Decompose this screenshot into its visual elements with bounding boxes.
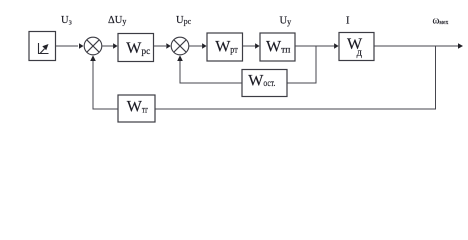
block Wtp xyxy=(260,33,295,61)
summing junction S1 xyxy=(84,37,102,55)
wire summer2 to Wrt xyxy=(189,45,202,47)
inner feedback tap down xyxy=(287,46,316,83)
block Wrt xyxy=(207,33,243,61)
svg-text:ΔUу: ΔUу xyxy=(108,15,126,26)
wire Wtg to summer1 xyxy=(93,60,118,109)
block Wtg xyxy=(118,95,155,122)
setpoint icon ramp arrow xyxy=(40,49,45,54)
output wire xyxy=(374,45,458,47)
svg-text:I: I xyxy=(346,15,350,26)
setpoint block ZI xyxy=(29,32,56,61)
wire block1 to summer1 xyxy=(56,45,79,47)
outer feedback tap down xyxy=(155,46,436,109)
setpoint icon axes xyxy=(39,43,49,54)
svg-text:Uу: Uу xyxy=(280,16,292,27)
wire Wost to summer2 xyxy=(180,60,242,83)
svg-text:Uрс: Uрс xyxy=(176,15,192,26)
block Wrs xyxy=(118,34,154,62)
block Wd xyxy=(339,33,374,61)
wire Wrt to Wtp xyxy=(243,45,256,47)
wire Wrs to summer2 xyxy=(154,45,167,47)
svg-text:Uз: Uз xyxy=(61,15,72,26)
summing junction S2 xyxy=(171,37,189,55)
block Wost xyxy=(242,70,287,97)
wire Wtp to Wd xyxy=(295,45,334,47)
wire summer1 to Wrs xyxy=(102,45,113,47)
